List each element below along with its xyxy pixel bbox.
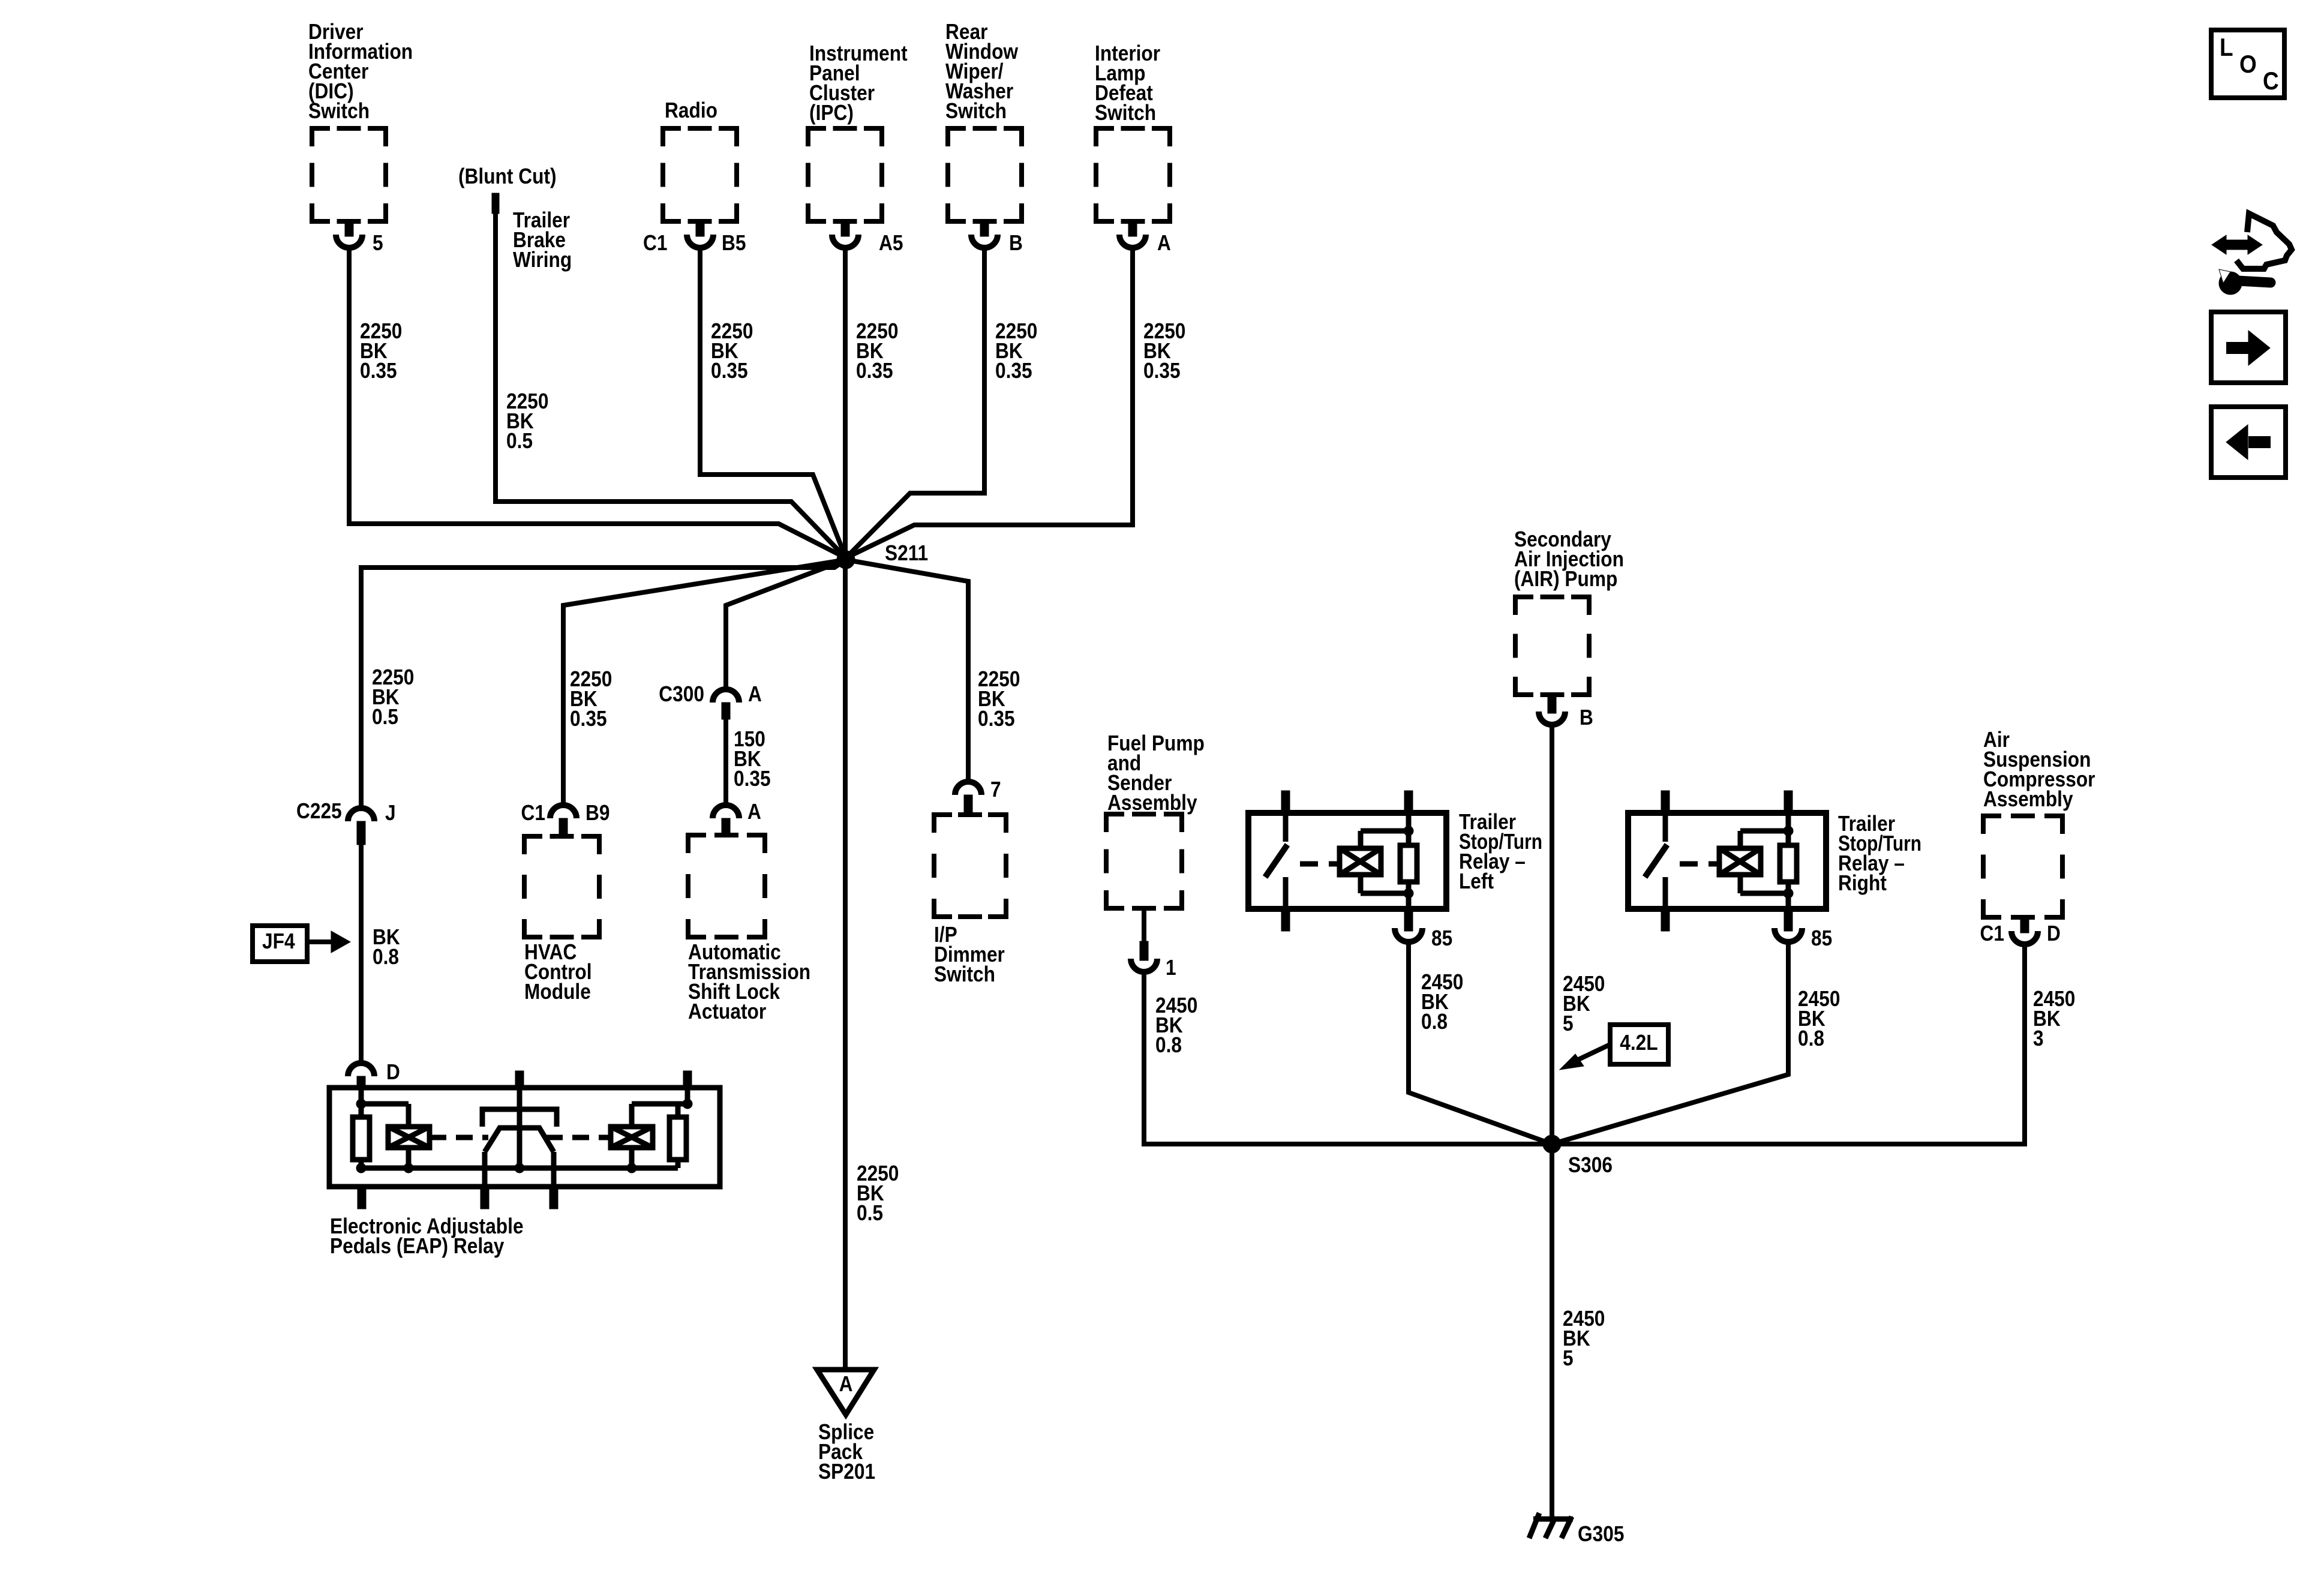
svg-text:5: 5: [1563, 1346, 1574, 1370]
svg-text:0.35: 0.35: [978, 707, 1015, 731]
svg-text:0.35: 0.35: [570, 707, 607, 731]
svg-text:S306: S306: [1568, 1153, 1613, 1177]
svg-text:Left: Left: [1459, 869, 1494, 893]
svg-text:(Blunt Cut): (Blunt Cut): [458, 164, 557, 188]
svg-text:A: A: [747, 800, 761, 824]
svg-text:C300: C300: [659, 682, 704, 706]
svg-text:0.35: 0.35: [995, 359, 1032, 383]
svg-text:1: 1: [1166, 956, 1176, 980]
svg-text:B: B: [1580, 706, 1593, 730]
svg-text:Pedals (EAP) Relay: Pedals (EAP) Relay: [330, 1234, 505, 1258]
svg-text:0.35: 0.35: [734, 767, 771, 791]
svg-text:A5: A5: [879, 231, 903, 255]
svg-text:(AIR) Pump: (AIR) Pump: [1514, 567, 1617, 591]
svg-text:A: A: [839, 1372, 853, 1396]
svg-text:L: L: [2220, 34, 2233, 62]
svg-text:B9: B9: [585, 801, 609, 825]
svg-text:A: A: [748, 682, 762, 706]
svg-text:0.5: 0.5: [372, 705, 398, 729]
svg-text:0.5: 0.5: [506, 429, 533, 453]
svg-text:0.5: 0.5: [857, 1201, 883, 1225]
svg-text:3: 3: [2033, 1026, 2044, 1050]
svg-text:B: B: [1009, 231, 1023, 255]
svg-text:JF4: JF4: [262, 929, 295, 953]
svg-text:J: J: [385, 801, 396, 825]
svg-text:0.8: 0.8: [1798, 1026, 1824, 1050]
svg-text:0.35: 0.35: [711, 359, 748, 383]
svg-text:0.35: 0.35: [360, 359, 397, 383]
svg-text:4.2L: 4.2L: [1620, 1031, 1658, 1055]
svg-text:Wiring: Wiring: [513, 248, 572, 272]
svg-text:C1: C1: [643, 231, 667, 255]
svg-text:85: 85: [1811, 926, 1832, 950]
svg-text:0.35: 0.35: [856, 359, 893, 383]
svg-text:O: O: [2239, 50, 2257, 79]
svg-text:Radio: Radio: [665, 98, 717, 122]
svg-text:C: C: [2263, 67, 2279, 95]
svg-text:Right: Right: [1838, 871, 1887, 895]
svg-text:Assembly: Assembly: [1107, 791, 1197, 815]
svg-text:85: 85: [1431, 926, 1452, 950]
svg-text:0.8: 0.8: [1421, 1010, 1448, 1034]
svg-text:5: 5: [1563, 1011, 1574, 1035]
svg-text:SP201: SP201: [818, 1460, 875, 1484]
svg-text:C1: C1: [1980, 921, 2004, 945]
svg-text:Assembly: Assembly: [1983, 787, 2073, 811]
svg-text:7: 7: [990, 778, 1001, 801]
svg-text:Actuator: Actuator: [688, 999, 766, 1023]
svg-text:Switch: Switch: [308, 99, 370, 123]
svg-text:A: A: [1157, 231, 1171, 255]
svg-text:Module: Module: [524, 980, 591, 1004]
svg-text:(IPC): (IPC): [809, 101, 854, 125]
svg-text:5: 5: [373, 231, 383, 255]
svg-text:D: D: [386, 1060, 400, 1084]
svg-text:0.35: 0.35: [1143, 359, 1181, 383]
svg-text:G305: G305: [1578, 1522, 1624, 1546]
svg-text:Switch: Switch: [1095, 101, 1156, 125]
svg-text:Switch: Switch: [945, 99, 1007, 123]
svg-text:D: D: [2047, 921, 2061, 945]
svg-text:S211: S211: [885, 541, 928, 565]
svg-text:B5: B5: [722, 231, 746, 255]
svg-text:Switch: Switch: [934, 962, 995, 986]
svg-text:C225: C225: [296, 799, 342, 823]
svg-text:0.8: 0.8: [1155, 1033, 1182, 1057]
svg-text:0.8: 0.8: [373, 945, 399, 969]
svg-text:C1: C1: [521, 801, 545, 825]
